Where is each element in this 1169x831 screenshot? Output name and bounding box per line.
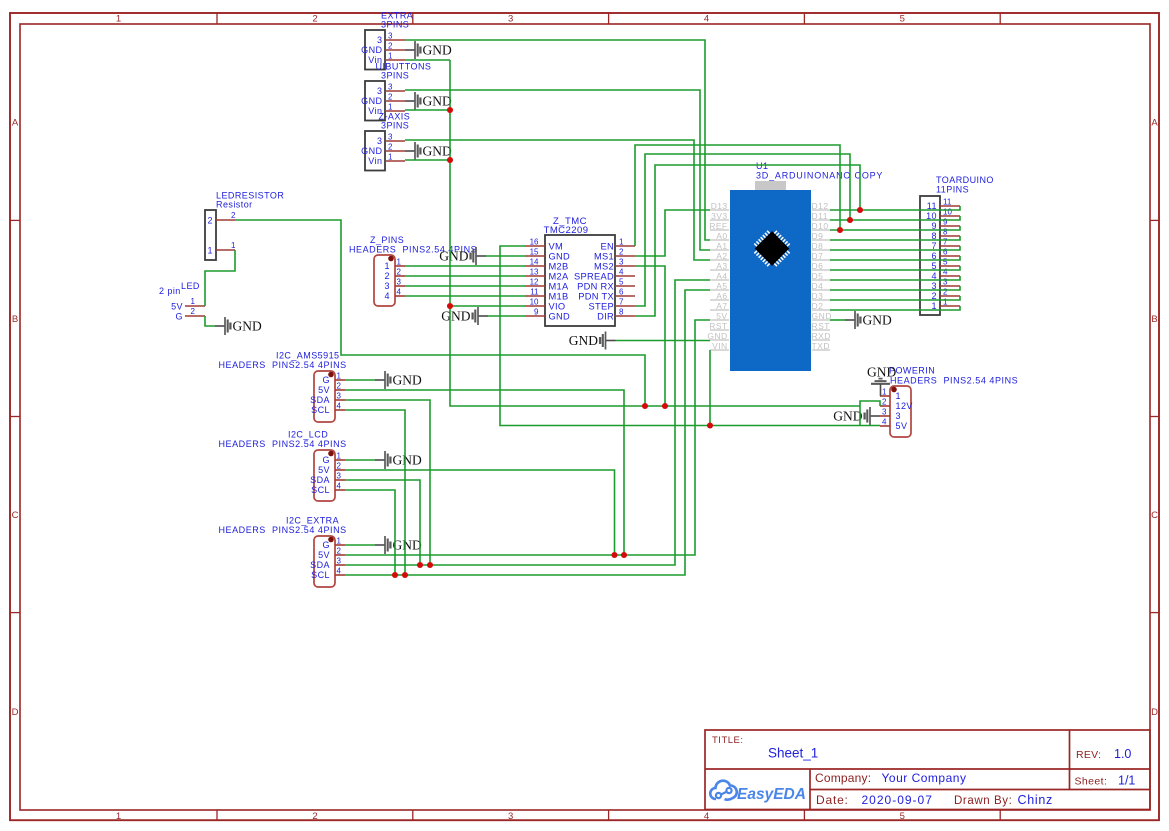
junction at 450,160 xyxy=(447,157,453,163)
svg-text:2: 2 xyxy=(388,93,393,102)
svg-text:GND: GND xyxy=(707,331,727,341)
junction at 710,425.5 xyxy=(707,422,713,428)
svg-text:RXD: RXD xyxy=(812,331,831,341)
wire UIBUTTONS pin3 to U1 A1 xyxy=(405,90,710,250)
svg-text:2: 2 xyxy=(337,382,342,391)
ground for POWERIN pin 3 xyxy=(833,407,880,425)
svg-text:4: 4 xyxy=(704,811,709,822)
wire I2C_AMS5915 5V xyxy=(345,390,624,555)
ground for TMC pin 9 xyxy=(441,307,488,325)
junction at 860,210 xyxy=(857,207,863,213)
svg-text:HEADERS PINS2.54 4PINS: HEADERS PINS2.54 4PINS xyxy=(219,439,347,449)
svg-text:3: 3 xyxy=(388,32,393,41)
ground for TMC pin 15 xyxy=(439,247,486,265)
junction at 395,575 xyxy=(392,572,398,578)
svg-text:I2C_AMS5915: I2C_AMS5915 xyxy=(276,351,340,361)
wire TMC pin9 GND xyxy=(488,315,525,317)
svg-text:Resistor: Resistor xyxy=(216,200,253,210)
wire I2C_AMS5915 SDA xyxy=(345,400,430,565)
svg-text:11PINS: 11PINS xyxy=(936,185,969,195)
svg-text:A4: A4 xyxy=(716,271,727,281)
svg-text:4: 4 xyxy=(337,402,342,411)
connector Z-AXIS 3PINS xyxy=(361,112,410,171)
svg-text:5: 5 xyxy=(619,278,624,287)
wire U1 D10 row to TOARDUINO pin 9 xyxy=(830,226,960,230)
svg-text:6: 6 xyxy=(943,248,948,257)
svg-text:GND: GND xyxy=(361,96,382,106)
junction at 624,555 xyxy=(621,552,627,558)
svg-text:G: G xyxy=(323,455,330,465)
svg-text:2: 2 xyxy=(231,211,236,220)
svg-text:GND: GND xyxy=(439,249,468,264)
svg-text:I2C_EXTRA: I2C_EXTRA xyxy=(286,516,339,526)
svg-text:Z_PINS: Z_PINS xyxy=(370,235,404,245)
ground (earth style) for POWERIN pin 1 xyxy=(867,365,896,397)
resistor LEDRESISTOR (Resistor) xyxy=(205,191,284,261)
wire TMC DIR to U1 D12 xyxy=(635,165,860,316)
svg-text:3: 3 xyxy=(388,133,393,142)
svg-text:A2: A2 xyxy=(716,251,727,261)
wire U1 D8 row to TOARDUINO pin 7 xyxy=(830,246,960,250)
svg-text:3PINS: 3PINS xyxy=(381,121,409,131)
wire Z-AXIS pin1 Vin xyxy=(405,159,450,161)
svg-text:1: 1 xyxy=(116,14,121,25)
svg-text:G: G xyxy=(176,312,183,322)
svg-text:GND: GND xyxy=(233,319,262,334)
svg-text:GND: GND xyxy=(441,309,470,324)
svg-text:A5: A5 xyxy=(716,281,727,291)
svg-text:4: 4 xyxy=(704,14,709,25)
svg-text:1: 1 xyxy=(191,297,196,306)
ground for UIBUTTONS pin 2 xyxy=(405,92,452,110)
svg-text:A7: A7 xyxy=(716,301,727,311)
svg-text:TITLE:: TITLE: xyxy=(712,735,744,746)
svg-text:M1B: M1B xyxy=(549,292,569,302)
svg-text:3: 3 xyxy=(508,811,513,822)
wire Z-AXIS pin3 to U1 A2 xyxy=(405,140,710,260)
svg-text:M2B: M2B xyxy=(549,262,569,272)
ground for Z-AXIS pin 2 xyxy=(405,142,452,160)
svg-text:3: 3 xyxy=(337,392,342,401)
svg-text:4: 4 xyxy=(337,482,342,491)
svg-text:2 pin: 2 pin xyxy=(159,286,181,296)
svg-text:D8: D8 xyxy=(812,241,824,251)
ground for LED pin 2 xyxy=(215,317,262,335)
svg-text:7: 7 xyxy=(619,298,624,307)
svg-text:Your Company: Your Company xyxy=(882,771,967,785)
svg-text:A0: A0 xyxy=(716,231,727,241)
svg-text:1.0: 1.0 xyxy=(1114,747,1131,761)
svg-text:SCL: SCL xyxy=(311,485,330,495)
connector I2C_EXTRA header xyxy=(310,536,345,587)
svg-text:8: 8 xyxy=(619,308,624,317)
svg-text:GND: GND xyxy=(393,453,422,468)
svg-text:5V: 5V xyxy=(716,311,727,321)
svg-text:1: 1 xyxy=(385,261,390,271)
svg-text:2: 2 xyxy=(208,216,213,226)
wire U1 A5 to SCL line xyxy=(345,290,710,575)
svg-text:GND: GND xyxy=(569,333,598,348)
junction at 665,406 xyxy=(662,403,668,409)
svg-text:GND: GND xyxy=(423,43,452,58)
wire I2C_AMS5915 SCL xyxy=(345,410,405,575)
ground for U1 GND (right) xyxy=(845,311,892,329)
ground for EXTRA pin 2 xyxy=(405,41,452,59)
svg-text:3V3: 3V3 xyxy=(711,211,727,221)
svg-text:3: 3 xyxy=(377,136,382,146)
junction at 420,565 xyxy=(417,562,423,568)
svg-text:3PINS: 3PINS xyxy=(381,20,409,30)
wire I2C_AMS5915 pin1 to ground xyxy=(345,379,375,381)
svg-text:SPREAD: SPREAD xyxy=(574,272,614,282)
svg-text:B: B xyxy=(1151,314,1157,325)
svg-text:SDA: SDA xyxy=(310,395,330,405)
svg-text:2: 2 xyxy=(191,307,196,316)
svg-text:D10: D10 xyxy=(812,221,829,231)
wire U1 5V to I2C 5V line xyxy=(345,320,710,555)
svg-text:D4: D4 xyxy=(812,281,824,291)
svg-text:GND: GND xyxy=(863,313,892,328)
EasyEDA logo xyxy=(710,781,806,803)
svg-text:TMC2209: TMC2209 xyxy=(544,225,589,236)
svg-text:EasyEDA: EasyEDA xyxy=(737,786,806,803)
wire TMC VIO to Vin rail xyxy=(450,305,525,307)
svg-text:3: 3 xyxy=(388,83,393,92)
svg-text:GND: GND xyxy=(867,365,896,380)
svg-text:GND: GND xyxy=(833,409,862,424)
svg-text:3: 3 xyxy=(882,408,887,417)
svg-text:U1: U1 xyxy=(756,161,768,171)
svg-text:A3: A3 xyxy=(716,261,727,271)
svg-text:D3: D3 xyxy=(812,291,824,301)
connector POWERIN header xyxy=(880,386,913,437)
svg-text:EN: EN xyxy=(600,242,614,252)
wire UIBUTTONS pin1 Vin xyxy=(405,109,450,111)
svg-text:LED: LED xyxy=(181,281,200,291)
U1 right pin labels xyxy=(812,201,832,351)
ground for I2C_EXTRA pin 1 xyxy=(375,536,422,554)
wire I2C_EXTRA pin1 to ground xyxy=(345,544,375,546)
svg-text:1: 1 xyxy=(397,258,402,267)
connector UIBUTTONS 3PINS xyxy=(361,62,431,121)
svg-text:3: 3 xyxy=(896,411,901,421)
junction at 430,565 xyxy=(427,562,433,568)
svg-text:VM: VM xyxy=(549,242,564,252)
svg-text:Sheet:: Sheet: xyxy=(1075,776,1108,788)
svg-text:SCL: SCL xyxy=(311,570,330,580)
svg-text:5: 5 xyxy=(900,811,905,822)
svg-text:8: 8 xyxy=(943,228,948,237)
junction at 645,406 xyxy=(642,403,648,409)
svg-text:D2: D2 xyxy=(812,301,824,311)
svg-text:12: 12 xyxy=(530,278,539,287)
svg-text:2: 2 xyxy=(943,288,948,297)
connector I2C_AMS5915 header xyxy=(310,371,345,422)
svg-text:I2C_LCD: I2C_LCD xyxy=(288,430,328,440)
svg-text:M2A: M2A xyxy=(549,272,570,282)
svg-text:Vin: Vin xyxy=(368,156,382,166)
svg-text:5V: 5V xyxy=(318,550,330,560)
wire TMC MS1 to U1 D13 xyxy=(635,210,710,256)
svg-text:RST: RST xyxy=(812,321,831,331)
svg-text:SCL: SCL xyxy=(311,405,330,415)
svg-text:GND: GND xyxy=(361,45,382,55)
svg-text:A: A xyxy=(12,118,19,129)
svg-text:MS1: MS1 xyxy=(594,252,614,262)
svg-text:1/1: 1/1 xyxy=(1118,774,1135,788)
svg-text:VIO: VIO xyxy=(549,302,566,312)
svg-text:HEADERS PINS2.54 4PINS: HEADERS PINS2.54 4PINS xyxy=(219,360,347,370)
wire U1 D5 row to TOARDUINO pin 4 xyxy=(830,276,960,280)
svg-text:3: 3 xyxy=(377,86,382,96)
svg-text:GND: GND xyxy=(393,373,422,388)
junction at 405,575 xyxy=(402,572,408,578)
svg-text:9: 9 xyxy=(943,218,948,227)
svg-text:D: D xyxy=(1151,707,1158,718)
svg-text:4: 4 xyxy=(619,268,624,277)
svg-text:D7: D7 xyxy=(812,251,824,261)
svg-text:6: 6 xyxy=(619,288,624,297)
svg-text:PDN RX: PDN RX xyxy=(577,282,614,292)
svg-text:GND: GND xyxy=(423,144,452,159)
wire I2C_LCD pin1 to ground xyxy=(345,459,375,461)
svg-text:1: 1 xyxy=(388,52,393,61)
wire I2C_LCD SCL xyxy=(345,490,395,575)
svg-text:A6: A6 xyxy=(716,291,727,301)
svg-text:12V: 12V xyxy=(896,401,913,411)
connector Z_PINS header xyxy=(374,255,405,306)
svg-text:1: 1 xyxy=(231,241,236,250)
svg-text:2: 2 xyxy=(397,268,402,277)
svg-text:15: 15 xyxy=(530,248,539,257)
svg-text:TOARDUINO: TOARDUINO xyxy=(936,175,994,185)
svg-text:C: C xyxy=(12,510,19,521)
svg-text:Drawn By:: Drawn By: xyxy=(954,795,1012,807)
svg-text:PDN TX: PDN TX xyxy=(578,292,614,302)
module U1 3D_ARDUINONANO COPY xyxy=(730,161,883,371)
svg-text:1: 1 xyxy=(337,452,342,461)
svg-text:D: D xyxy=(12,707,19,718)
junction at 850,220 xyxy=(847,217,853,223)
svg-text:D6: D6 xyxy=(812,261,824,271)
svg-text:5V: 5V xyxy=(318,465,330,475)
ground for U1 GND (left) xyxy=(569,332,616,350)
svg-text:3: 3 xyxy=(619,258,624,267)
svg-text:1: 1 xyxy=(388,103,393,112)
svg-text:GND: GND xyxy=(423,94,452,109)
wire Vin rail down to 12V line to POWERIN pin2 xyxy=(450,60,860,406)
svg-text:5: 5 xyxy=(900,14,905,25)
ground for I2C_AMS5915 pin 1 xyxy=(375,371,422,389)
svg-text:VIN: VIN xyxy=(712,341,727,351)
svg-text:C: C xyxy=(1151,510,1158,521)
svg-text:11: 11 xyxy=(530,288,539,297)
svg-text:13: 13 xyxy=(530,268,539,277)
svg-text:GND: GND xyxy=(549,252,571,262)
title block xyxy=(705,730,1150,810)
svg-text:REF: REF xyxy=(709,221,727,231)
svg-text:3D_ARDUINONANO COPY: 3D_ARDUINONANO COPY xyxy=(756,171,883,181)
svg-text:1: 1 xyxy=(337,537,342,546)
svg-text:5V: 5V xyxy=(896,421,908,431)
wire U1 D11 row to TOARDUINO pin 10 xyxy=(830,216,960,220)
wire U1 D3 row to TOARDUINO pin 2 xyxy=(830,296,960,300)
svg-text:3: 3 xyxy=(337,557,342,566)
svg-text:1: 1 xyxy=(896,391,901,401)
svg-text:GND: GND xyxy=(393,538,422,553)
connector EXTRA 3PINS xyxy=(361,11,413,70)
LED "2 pin" connector xyxy=(159,281,205,322)
svg-text:10: 10 xyxy=(530,298,539,307)
svg-text:A: A xyxy=(1151,118,1158,129)
wire U1 D12 row to TOARDUINO pin 11 xyxy=(830,206,960,210)
wire TMC MS2 to 12V line xyxy=(635,266,665,406)
junction at 450,306 xyxy=(447,303,453,309)
wire TMC STEP to U1 D11 xyxy=(635,154,850,306)
svg-text:4: 4 xyxy=(337,567,342,576)
wire resistor pin2 to 12V line xyxy=(235,220,645,406)
svg-text:D11: D11 xyxy=(812,211,828,221)
svg-text:16: 16 xyxy=(530,238,539,247)
junction at 840,230 xyxy=(837,227,843,233)
ground for I2C_LCD pin 1 xyxy=(375,451,422,469)
svg-text:STEP: STEP xyxy=(589,302,614,312)
svg-text:9: 9 xyxy=(534,308,539,317)
svg-text:3: 3 xyxy=(385,281,390,291)
wire U1 D4 row to TOARDUINO pin 3 xyxy=(830,286,960,290)
svg-text:2: 2 xyxy=(882,398,887,407)
wire U1 D7 row to TOARDUINO pin 6 xyxy=(830,256,960,260)
svg-text:1: 1 xyxy=(943,298,948,307)
wire U1 D2 row to TOARDUINO pin 1 xyxy=(830,306,960,310)
svg-text:10: 10 xyxy=(943,208,952,217)
svg-text:D13: D13 xyxy=(711,201,728,211)
wires Z_PINS pins to TMC motor pins xyxy=(405,265,525,267)
connector I2C_LCD header xyxy=(310,450,345,501)
wire POWERIN pin2 hook xyxy=(860,401,880,426)
svg-text:4: 4 xyxy=(943,268,948,277)
wire U1 D9 row to TOARDUINO pin 8 xyxy=(830,236,960,240)
svg-text:Company:: Company: xyxy=(815,771,871,785)
svg-text:4: 4 xyxy=(385,291,390,301)
svg-text:MS2: MS2 xyxy=(594,262,614,272)
wire U1 left GND pin to ground xyxy=(616,340,711,342)
svg-text:2: 2 xyxy=(337,462,342,471)
svg-text:G: G xyxy=(323,375,330,385)
svg-text:1: 1 xyxy=(388,153,393,162)
wire resistor pin1 to LED pin1 xyxy=(205,250,235,306)
svg-text:4: 4 xyxy=(882,418,887,427)
wire U1 right GND pin xyxy=(830,319,845,321)
svg-text:2: 2 xyxy=(337,547,342,556)
svg-text:5V: 5V xyxy=(318,385,330,395)
wire U1 A4 to SDA line xyxy=(345,280,710,565)
svg-text:Chinz: Chinz xyxy=(1018,793,1053,807)
wire TMC EN to U1 D10 xyxy=(635,145,840,246)
svg-text:3: 3 xyxy=(337,472,342,481)
svg-text:1: 1 xyxy=(337,372,342,381)
junction at 614.5,555 xyxy=(611,552,617,558)
wire U1 D6 row to TOARDUINO pin 5 xyxy=(830,266,960,270)
wire TMC pin15 GND xyxy=(486,255,525,257)
svg-text:Sheet_1: Sheet_1 xyxy=(768,746,818,761)
svg-text:SDA: SDA xyxy=(310,475,330,485)
svg-text:3PINS: 3PINS xyxy=(381,71,409,81)
svg-text:11: 11 xyxy=(943,198,952,207)
svg-text:M1A: M1A xyxy=(549,282,570,292)
wire TMC VM down to 5V/VIN line to POWERIN pin4 xyxy=(500,246,880,426)
svg-text:GND: GND xyxy=(549,312,571,322)
svg-text:Date:: Date: xyxy=(816,793,849,807)
svg-text:2: 2 xyxy=(385,271,390,281)
wire U1 VIN down to 5V/VIN line xyxy=(709,350,711,426)
svg-text:GND: GND xyxy=(361,146,382,156)
svg-text:A1: A1 xyxy=(716,241,727,251)
IC Z_TMC TMC2209 xyxy=(525,216,635,326)
svg-text:RST: RST xyxy=(709,321,727,331)
connector TOARDUINO 11PINS xyxy=(920,175,994,315)
svg-text:4: 4 xyxy=(397,288,402,297)
svg-text:2020-09-07: 2020-09-07 xyxy=(862,793,933,807)
wire EXTRA pin3 to U1 A0 xyxy=(405,40,710,240)
svg-text:5V: 5V xyxy=(171,302,183,312)
svg-text:HEADERS PINS2.54 4PINS: HEADERS PINS2.54 4PINS xyxy=(219,525,347,535)
svg-text:2: 2 xyxy=(619,248,624,257)
svg-text:5: 5 xyxy=(943,258,948,267)
svg-text:1: 1 xyxy=(116,811,121,822)
svg-text:1: 1 xyxy=(882,388,887,397)
svg-text:3: 3 xyxy=(943,278,948,287)
wire EXTRA pin1 Vin xyxy=(405,59,450,61)
svg-text:14: 14 xyxy=(530,258,539,267)
U1 left pin labels xyxy=(707,201,729,351)
svg-text:TXD: TXD xyxy=(812,341,831,351)
svg-text:G: G xyxy=(323,540,330,550)
svg-text:3: 3 xyxy=(508,14,513,25)
svg-text:3: 3 xyxy=(397,278,402,287)
svg-text:D9: D9 xyxy=(812,231,824,241)
svg-text:2: 2 xyxy=(312,14,317,25)
svg-text:2: 2 xyxy=(388,143,393,152)
svg-text:B: B xyxy=(12,314,18,325)
svg-text:1: 1 xyxy=(619,238,624,247)
wire I2C_LCD SDA xyxy=(345,480,420,565)
svg-text:DIR: DIR xyxy=(597,312,614,322)
svg-text:7: 7 xyxy=(943,238,948,247)
svg-text:GND: GND xyxy=(812,311,832,321)
wire I2C_LCD 5V xyxy=(345,470,615,555)
junction at 450,110 xyxy=(447,107,453,113)
svg-text:SDA: SDA xyxy=(310,560,330,570)
svg-text:1: 1 xyxy=(208,246,213,256)
svg-text:2: 2 xyxy=(312,811,317,822)
svg-text:3: 3 xyxy=(377,35,382,45)
svg-text:REV:: REV: xyxy=(1076,749,1101,761)
wire LED pin2 to ground xyxy=(205,316,215,326)
svg-text:D5: D5 xyxy=(812,271,824,281)
svg-text:2: 2 xyxy=(388,42,393,51)
svg-text:D12: D12 xyxy=(812,201,829,211)
svg-text:HEADERS PINS2.54 4PINS: HEADERS PINS2.54 4PINS xyxy=(890,376,1018,386)
